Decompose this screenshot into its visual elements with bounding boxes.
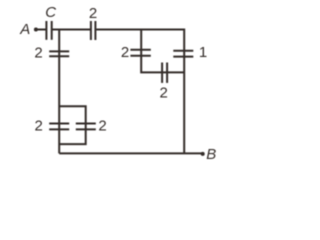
svg-text:2: 2 <box>34 44 42 61</box>
svg-text:2: 2 <box>160 84 168 101</box>
svg-text:2: 2 <box>121 44 129 61</box>
svg-text:1: 1 <box>199 44 207 61</box>
svg-text:2: 2 <box>89 5 97 22</box>
svg-text:2: 2 <box>35 118 43 135</box>
svg-text:A: A <box>19 21 30 38</box>
svg-text:B: B <box>206 146 216 163</box>
svg-text:C: C <box>45 4 56 21</box>
svg-text:2: 2 <box>98 118 106 135</box>
